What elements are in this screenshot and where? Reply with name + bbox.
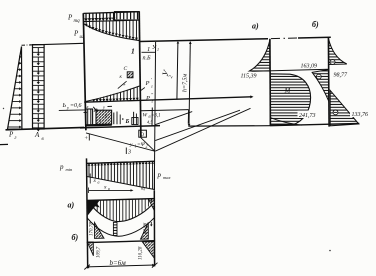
leader line to C <box>118 81 127 88</box>
svg-text:у: у <box>66 105 69 110</box>
left dark wedge <box>87 201 99 216</box>
svg-text:б): б) <box>72 233 79 242</box>
load column A_v (vertical distributed load bar) <box>33 45 45 132</box>
value 133.76 <box>350 110 373 118</box>
svg-text:х: х <box>93 178 97 184</box>
svg-text:163,09: 163,09 <box>301 64 318 70</box>
svg-text:а): а) <box>68 201 75 210</box>
column line of diagram a <box>269 39 272 126</box>
stray scan dash left edge <box>0 143 8 145</box>
svg-text:=0,6: =0,6 <box>70 103 82 109</box>
dim line x=155 (right edge column) <box>154 42 155 190</box>
svg-text:р: р <box>157 171 162 179</box>
fan diagonal d1 <box>86 133 155 151</box>
svg-text:h=7,5м: h=7,5м <box>183 73 189 92</box>
svg-text:г: г <box>151 84 153 89</box>
right small wedge <box>149 199 155 211</box>
svg-text:а: а <box>98 180 100 185</box>
label 3 <box>125 148 127 155</box>
svg-text:115,39: 115,39 <box>241 74 257 80</box>
below-right wedge <box>142 242 154 259</box>
baseline of bottom b <box>87 241 155 243</box>
fan diagonal d3 (short up-right) <box>155 112 192 125</box>
svg-text:у: у <box>129 142 133 148</box>
svg-text:г: г <box>152 99 154 104</box>
svg-text:max: max <box>163 175 171 180</box>
svg-text:98,77: 98,77 <box>334 73 349 79</box>
baseline under wall-top load (long line to the right) <box>84 97 251 102</box>
right upper wedge <box>141 223 149 240</box>
fan diagonal d4 (long up-right) <box>155 110 240 140</box>
sagging parabola with vertical hatch <box>89 199 152 222</box>
baseline y~71 from wedge to wall b <box>252 69 329 71</box>
svg-text:133,76: 133,76 <box>352 112 369 118</box>
svg-text:170,78: 170,78 <box>90 222 95 236</box>
svg-text:тq: тq <box>74 19 81 24</box>
hatched box K (left small pier) <box>86 109 93 125</box>
right vertical edge of bottom diagrams <box>153 190 155 266</box>
below-left wedge <box>87 242 93 256</box>
dimension line b=6m <box>87 265 155 267</box>
svg-text:109,7: 109,7 <box>97 246 102 258</box>
minus sign circle top <box>330 60 335 65</box>
svg-text:Р: Р <box>145 80 150 87</box>
beam moment parabola region (M) <box>270 74 310 125</box>
left vertical edge of bottom diagrams <box>87 158 88 268</box>
svg-text:щ: щ <box>141 187 145 192</box>
fan diagonal d5 (long up-right) <box>155 108 250 151</box>
load diagram P_g (left earth-pressure triangle) <box>8 47 22 130</box>
svg-text:W: W <box>143 113 148 119</box>
svg-text:Ь: Ь <box>62 103 67 109</box>
svg-text:1: 1 <box>157 47 159 52</box>
svg-text:Б: Б <box>125 119 130 125</box>
svg-text:Р: Р <box>145 95 150 102</box>
svg-text:О: О <box>141 133 145 138</box>
wall right edge <box>139 12 141 138</box>
value 241.73 <box>298 111 321 119</box>
small box O under wall <box>139 130 147 137</box>
svg-text:п.Б: п.Б <box>143 56 152 62</box>
bottom baseline of right diagrams <box>270 123 359 125</box>
svg-text:иг: иг <box>80 35 85 40</box>
dim line x=190 (h=7.5m) <box>189 42 190 127</box>
svg-text:р: р <box>59 163 64 171</box>
top-right wedge of b <box>329 39 347 65</box>
svg-text:2: 2 <box>146 144 148 149</box>
long bottom baseline to right diagrams <box>188 125 270 127</box>
svg-text:=3,1: =3,1 <box>151 114 161 119</box>
svg-text:С: С <box>124 66 128 72</box>
wall line of diagram b <box>327 37 330 126</box>
svg-text:3: 3 <box>127 150 131 156</box>
top line of left loads (dash-dot + solid) <box>22 44 32 46</box>
soil pressure trapezoid p_min..p_max <box>87 161 155 189</box>
baseline of bottom a <box>87 199 155 201</box>
triangular pressure load on wall top (P_g-prime diagram) <box>85 86 140 102</box>
svg-text:М: М <box>284 87 292 95</box>
svg-text:г: г <box>15 136 17 141</box>
scan specks <box>329 250 331 252</box>
svg-text:b=6м: b=6м <box>110 259 127 267</box>
curve crossing near bottom <box>270 118 302 126</box>
wall left edge <box>83 13 86 130</box>
svg-text:у: у <box>102 105 105 110</box>
bottom-right triangle of b <box>330 90 359 125</box>
svg-text:а): а) <box>252 22 259 31</box>
svg-text:min: min <box>66 167 74 172</box>
svg-text:1: 1 <box>131 47 135 56</box>
middle increment strip <box>113 222 117 235</box>
svg-text:Р: Р <box>8 131 14 139</box>
uniform load band P_tq on top <box>83 12 139 22</box>
curved load P_ig below band <box>84 20 139 40</box>
wedge M diagram top-left of a <box>250 40 270 71</box>
svg-text:Р: Р <box>67 14 73 22</box>
svg-text:х: х <box>103 185 107 191</box>
svg-text:241,73: 241,73 <box>299 112 316 119</box>
svg-text:=Ψ: =Ψ <box>137 142 146 148</box>
svg-text:х: х <box>86 104 89 109</box>
line y~110 from wall to h-dim <box>141 110 189 111</box>
x_a x_v arrows <box>89 174 91 184</box>
value 98.77 <box>332 70 352 78</box>
ground line under left loads <box>6 127 85 129</box>
svg-text:б): б) <box>312 20 319 29</box>
mid wedge left of wall <box>312 70 329 102</box>
cluster bottom line <box>80 126 160 128</box>
top line dash-dot continuation <box>271 37 280 39</box>
svg-text:А: А <box>34 131 40 139</box>
left upper wedge <box>95 223 105 239</box>
deeper curve (second diagram curve) <box>87 218 154 237</box>
main top line (beam) <box>139 39 268 42</box>
svg-text:Р: Р <box>73 30 79 38</box>
fan diagonal d2 <box>141 138 155 152</box>
dim line x=177.5 <box>177 42 178 100</box>
svg-text:110,28: 110,28 <box>139 246 144 260</box>
hatched box footing <box>96 110 112 124</box>
